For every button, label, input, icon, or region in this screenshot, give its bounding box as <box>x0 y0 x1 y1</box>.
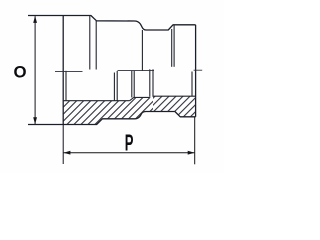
left thread runout pair <box>113 73 115 101</box>
dimension line <box>64 152 195 154</box>
arrowhead up <box>33 16 37 23</box>
left bore line <box>63 100 129 102</box>
right thread entrance edge <box>191 72 193 97</box>
left face <box>62 16 64 125</box>
neck start edge <box>141 30 143 71</box>
throat bore line <box>134 96 150 98</box>
bottom outline with O extension line <box>28 112 196 125</box>
arrowhead down <box>33 117 37 124</box>
shoulder cone <box>130 97 134 100</box>
left thread entrance edge <box>65 71 67 101</box>
arrowhead left <box>64 151 71 155</box>
chamfer edge pair at large end <box>89 16 91 70</box>
arrowhead right <box>188 151 195 155</box>
neck end chamfer pair <box>171 29 173 67</box>
dimension O <box>34 16 36 124</box>
svg-text:O: O <box>14 63 27 82</box>
right face <box>195 25 197 117</box>
right thread runout pair <box>149 69 151 97</box>
left extension line <box>62 125 64 165</box>
centerline <box>55 70 202 71</box>
right bore line <box>153 95 196 97</box>
svg-text:P: P <box>125 131 134 157</box>
right extension line <box>194 117 196 165</box>
top outline of body with O extension line <box>28 16 196 31</box>
dimension P <box>63 117 195 165</box>
hatched section right wall <box>153 96 196 117</box>
centre shoulder pair <box>131 71 133 98</box>
hatched section left wall <box>63 97 153 124</box>
